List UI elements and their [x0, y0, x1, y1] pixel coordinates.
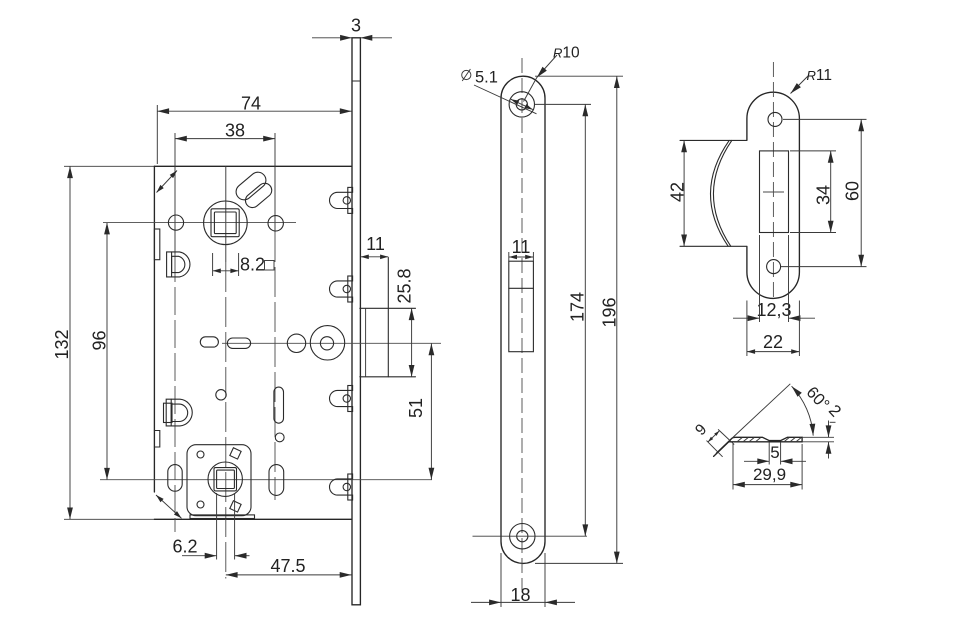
svg-text:174: 174 [568, 292, 588, 322]
upper D-hook element [167, 252, 190, 277]
faceplate strip (side view) [352, 38, 360, 605]
strike plate curved lip [680, 140, 747, 246]
dimension 11 (faceplate slot) [509, 237, 534, 261]
corner indicator arrow bottom-left [156, 495, 182, 518]
faceplate front outline [501, 76, 545, 563]
middle D-hook element [164, 399, 193, 426]
label diameter 5.1 with leader [462, 69, 537, 114]
faceplate centerline [521, 58, 523, 590]
centerline right column [274, 133, 276, 232]
faceplate top screw hole [509, 92, 534, 117]
angle 60 degree line and arc [732, 383, 845, 438]
strike bottom hole [767, 260, 781, 274]
cylinder mounting plate [187, 445, 251, 516]
small circle center-left [216, 390, 226, 400]
dimension 11 (left view) [361, 234, 389, 257]
svg-text:11: 11 [512, 237, 531, 257]
dimension 51 [406, 344, 431, 480]
dimension 8.2 square [213, 253, 274, 276]
dimension 96 (hub centers) [90, 223, 110, 480]
lower hub square 6.2 [214, 468, 237, 491]
svg-text:22: 22 [763, 332, 783, 352]
faceplate latch slot [509, 261, 534, 352]
svg-text:6.2: 6.2 [172, 537, 197, 557]
centerline left column [174, 133, 176, 254]
dimension 34 [790, 151, 836, 233]
centerline middle horizontal [222, 342, 441, 344]
oval slot left on middle line [200, 337, 218, 347]
dimension 74 [157, 94, 351, 165]
dimension 38 [175, 121, 275, 141]
small circle below vertical slot [275, 433, 284, 442]
crosshair bottom hole [473, 535, 588, 537]
small circle right of hub [268, 216, 283, 231]
dimension 22 [747, 301, 800, 357]
svg-text:11: 11 [366, 234, 385, 254]
lower right oval [269, 465, 284, 496]
svg-text:12,3: 12,3 [756, 300, 791, 320]
svg-text:3: 3 [351, 16, 361, 36]
vertical slot right column [274, 387, 284, 423]
dimension 6.2 [172, 493, 249, 560]
svg-text:60: 60 [843, 181, 863, 201]
dimension 18 [471, 553, 575, 607]
thickness 2 dimension arrows [802, 421, 834, 459]
svg-text:R10: R10 [553, 45, 580, 62]
centerline hub column [225, 166, 227, 262]
dimension 25.8 [395, 268, 415, 376]
small circle left of hub [168, 215, 183, 230]
section bar outline [729, 437, 802, 442]
corner indicator arrow top-left [157, 171, 178, 193]
upper hub square 8.2 [211, 209, 239, 237]
spring cam blob lower [243, 180, 275, 210]
svg-text:96: 96 [90, 330, 110, 350]
centerline upper hub horizontal [103, 222, 296, 224]
svg-text:5: 5 [770, 443, 779, 462]
left edge notch [154, 431, 159, 448]
svg-text:R11: R11 [807, 67, 832, 84]
latch boss 4 [330, 474, 353, 500]
faceplate bottom screw hole [510, 524, 535, 549]
svg-text:74: 74 [241, 94, 261, 114]
dimension 29,9 [733, 444, 802, 490]
svg-text:29,9: 29,9 [753, 465, 786, 484]
mounting plate bottom flange [190, 515, 255, 519]
lower left oval [168, 465, 182, 492]
dimension 174 [535, 104, 592, 536]
large pivot circle with inner hole [310, 326, 344, 360]
latch boss 2 [330, 276, 353, 302]
spring cam blob upper [233, 169, 269, 203]
svg-text:38: 38 [225, 121, 245, 141]
latch boss 3 [330, 386, 353, 412]
lock body outline [64, 166, 352, 519]
svg-text:51: 51 [406, 398, 426, 418]
dimension 196 [535, 76, 623, 563]
label R10 with leader [524, 45, 581, 102]
centerline lower hub horizontal [100, 479, 432, 481]
circle on middle line [287, 334, 305, 352]
dimension 47.5 [226, 556, 352, 576]
section hatching [738, 438, 802, 442]
thin spring plate on left edge [154, 229, 159, 260]
svg-text:5.1: 5.1 [475, 69, 498, 87]
strike centerline [772, 62, 774, 302]
latch boss 1 [330, 187, 353, 213]
oval slot right on middle line [227, 338, 250, 348]
dimension 5 (dimple width) [744, 442, 806, 465]
section bent lip [707, 429, 735, 456]
svg-text:132: 132 [52, 329, 72, 359]
dimension 12,3 [733, 235, 815, 322]
svg-text:47.5: 47.5 [270, 556, 305, 576]
strike top hole [768, 112, 782, 126]
upper hub follower circle [204, 201, 248, 245]
strike plate outline [747, 92, 800, 298]
svg-text:8.2: 8.2 [240, 255, 265, 275]
dimension 42 [668, 140, 688, 246]
strike latch slot [760, 151, 789, 233]
dimension 9 (lip width) [692, 421, 719, 442]
dimension 3 (faceplate thickness) [312, 16, 392, 38]
lower hub circle [208, 462, 242, 496]
deadbolt box (thrown bolt side view) [360, 258, 416, 377]
label R11 with leader [791, 67, 832, 94]
svg-text:25.8: 25.8 [395, 268, 415, 303]
dimension 60 [781, 119, 867, 266]
dimension 132 (body height) [52, 166, 72, 519]
